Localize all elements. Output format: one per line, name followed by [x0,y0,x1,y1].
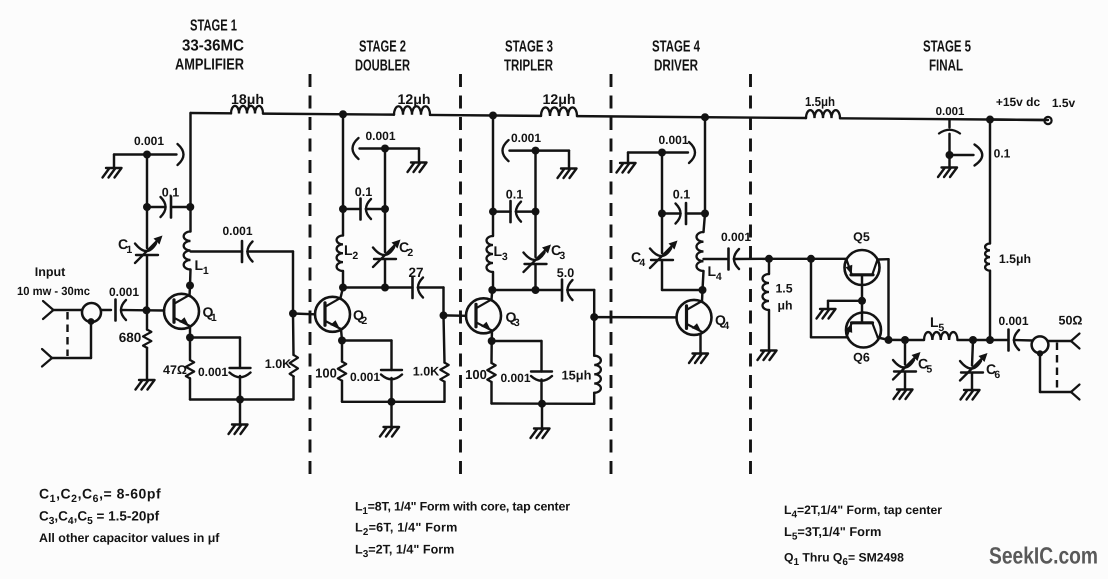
svg-text:0.001: 0.001 [658,133,688,147]
svg-text:12μh: 12μh [543,91,576,107]
svg-text:3: 3 [559,250,565,262]
svg-text:Input: Input [35,265,66,279]
svg-text:1: 1 [126,244,132,256]
svg-text:5.0: 5.0 [557,266,574,280]
svg-text:5: 5 [938,322,944,334]
svg-text:1: 1 [211,312,217,324]
svg-text:2: 2 [352,250,358,262]
svg-text:3: 3 [502,251,508,263]
svg-text:SeekIC.com: SeekIC.com [989,543,1098,569]
svg-text:0.001: 0.001 [198,365,228,379]
svg-text:2: 2 [407,247,413,259]
svg-text:Q5: Q5 [853,230,870,244]
svg-text:STAGE 5: STAGE 5 [923,39,971,56]
svg-text:0.001: 0.001 [511,131,541,145]
svg-text:0.001: 0.001 [721,230,751,244]
svg-text:4: 4 [716,271,722,283]
svg-text:6: 6 [994,369,1000,381]
svg-text:0.001: 0.001 [350,370,380,384]
svg-text:1.0K: 1.0K [413,365,439,379]
svg-text:FINAL: FINAL [929,58,963,75]
svg-text:STAGE 4: STAGE 4 [652,39,700,56]
svg-text:1.5v: 1.5v [1052,96,1076,110]
svg-text:0.001: 0.001 [936,106,965,118]
svg-text:0.001: 0.001 [365,129,395,143]
svg-text:0.001: 0.001 [222,224,252,238]
svg-text:+15v dc: +15v dc [996,95,1041,109]
svg-text:50Ω: 50Ω [1059,314,1083,328]
svg-text:STAGE 2: STAGE 2 [359,39,406,56]
svg-text:12μh: 12μh [398,91,431,107]
svg-text:0.001: 0.001 [500,371,530,385]
svg-text:Q6: Q6 [853,351,870,365]
svg-text:STAGE 3: STAGE 3 [505,39,553,56]
svg-text:4: 4 [723,320,729,332]
svg-text:27: 27 [408,265,423,280]
svg-text:1.0K: 1.0K [265,357,291,371]
svg-text:4: 4 [639,257,645,269]
svg-text:AMPLIFIER: AMPLIFIER [175,57,244,74]
svg-text:10 mw - 30mc: 10 mw - 30mc [17,284,90,298]
svg-text:All other capacitor values in: All other capacitor values in μf [39,531,220,545]
svg-text:1.5: 1.5 [775,282,792,296]
svg-text:33-36MC: 33-36MC [182,38,244,55]
svg-text:15μh: 15μh [562,368,592,383]
svg-text:2: 2 [361,315,367,327]
svg-text:0.1: 0.1 [506,188,523,202]
svg-text:0.001: 0.001 [134,134,164,148]
svg-text:1.5μh: 1.5μh [805,94,835,109]
svg-text:0.001: 0.001 [998,314,1028,328]
svg-text:DOUBLER: DOUBLER [355,58,410,75]
svg-text:0.001: 0.001 [109,285,139,299]
svg-text:0.1: 0.1 [673,188,690,202]
svg-text:18μh: 18μh [231,91,264,107]
svg-text:1.5μh: 1.5μh [999,252,1031,266]
svg-text:TRIPLER: TRIPLER [504,58,553,75]
svg-text:0.1: 0.1 [355,185,372,199]
svg-text:100: 100 [315,366,337,381]
svg-text:STAGE 1: STAGE 1 [190,18,237,35]
svg-text:100: 100 [465,367,487,382]
svg-text:DRIVER: DRIVER [654,58,698,75]
svg-text:μh: μh [777,299,792,313]
svg-text:5: 5 [926,363,932,375]
svg-text:0.1: 0.1 [994,147,1011,161]
svg-text:0.1: 0.1 [162,186,179,200]
svg-text:680: 680 [119,330,142,345]
svg-text:1: 1 [203,265,209,277]
svg-text:47Ω: 47Ω [163,363,187,377]
svg-text:3: 3 [514,317,520,329]
